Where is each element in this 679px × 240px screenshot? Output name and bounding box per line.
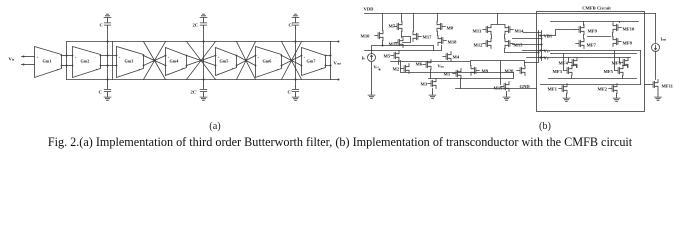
transistor M2 — [401, 64, 409, 74]
wire crossing X2 — [187, 42, 216, 80]
node dots output stubs — [338, 41, 340, 43]
transistor MF4 — [569, 58, 577, 68]
wire MF4 gate to bus — [568, 58, 570, 63]
svg-text:Gm3: Gm3 — [125, 59, 134, 64]
svg-text:C: C — [100, 23, 103, 28]
transistor M10 — [375, 31, 383, 41]
transistor M13 — [483, 25, 491, 35]
wire node1 vertical — [107, 28, 109, 87]
svg-text:2C': 2C' — [191, 90, 198, 95]
ground MF11 — [655, 95, 662, 101]
svg-text:Gm2: Gm2 — [81, 59, 90, 64]
svg-text:Gm1: Gm1 — [43, 59, 52, 64]
wire rail drop MF10 — [619, 22, 621, 23]
svg-text:MF2: MF2 — [598, 87, 608, 92]
svg-text:Vo+: Vo+ — [544, 49, 551, 54]
svg-text:M8: M8 — [447, 26, 454, 31]
wire Vo- to CMFB — [513, 44, 542, 46]
node column 1 with capacitors C — [99, 14, 111, 100]
wire VDD drop to M10 — [382, 14, 384, 31]
svg-text:Vin: Vin — [9, 57, 15, 62]
wire M19 source to ground — [506, 92, 508, 95]
wire VDD drop to M7 — [401, 14, 403, 22]
wire M7 to M11 — [402, 32, 411, 43]
wire bus mirror gates — [372, 46, 434, 51]
svg-text:+: + — [168, 56, 170, 60]
wire pair1 tail — [571, 76, 573, 79]
svg-text:M19: M19 — [494, 86, 504, 91]
transistor M9 — [471, 66, 479, 76]
svg-text:MF1: MF1 — [548, 87, 558, 92]
wire gate bus MF1/MF2 — [541, 84, 641, 86]
capacitor C top — [104, 20, 110, 28]
svg-text:Vi+: Vi+ — [374, 65, 380, 70]
svg-text:-: - — [181, 56, 182, 60]
svg-text:Ib: Ib — [362, 56, 366, 61]
transistor M7 — [394, 22, 402, 32]
svg-text:Iout: Iout — [661, 37, 667, 42]
node input dots — [23, 56, 25, 58]
svg-text:+: + — [119, 56, 121, 60]
wire Gm1 to box1 bottom rail — [62, 65, 73, 67]
wire M6 source to M3 drain — [430, 70, 432, 79]
svg-text:Vout: Vout — [334, 61, 342, 66]
wire output stubs — [331, 42, 339, 80]
wire GND bus into box — [456, 88, 537, 90]
svg-text:-: - — [320, 56, 321, 60]
ground bottom — [104, 95, 111, 101]
capacitor C' top — [292, 20, 298, 28]
ground bottom — [200, 95, 207, 101]
wire output node Vo vertical — [524, 31, 542, 61]
transistor M1 — [453, 69, 461, 79]
wire Vo+ to CMFB — [513, 38, 542, 40]
wire bus row4 — [429, 73, 514, 79]
svg-text:Gm7: Gm7 — [307, 59, 316, 64]
wire M5 source to M2 drain — [398, 61, 400, 65]
svg-text:C': C' — [288, 90, 293, 95]
wire M3 source to ground — [432, 89, 434, 93]
wire bus mid inner — [551, 53, 637, 55]
capacitor C bottom — [104, 87, 110, 95]
svg-text:M7: M7 — [389, 24, 396, 29]
transistor M11 — [395, 38, 403, 48]
wire Gm2 to Gm3 top rail — [101, 55, 117, 57]
wire crossing X4 — [282, 42, 302, 80]
svg-text:M3: M3 — [421, 82, 428, 87]
transistor MF2 — [609, 84, 617, 94]
svg-text:MF10: MF10 — [623, 27, 635, 32]
transistor M5 — [391, 51, 399, 61]
svg-text:M18: M18 — [448, 40, 458, 45]
ground M3 — [429, 93, 436, 99]
feedback box around Gm2 — [67, 42, 113, 80]
wire VDD drop to M13/M14 — [492, 14, 505, 25]
node column 3 with capacitors C' — [288, 14, 299, 100]
transistor M12 — [483, 39, 491, 49]
svg-text:Gm6: Gm6 — [263, 59, 272, 64]
svg-text:+: + — [75, 56, 77, 60]
wire Gm1 to box1 top rail — [62, 55, 73, 57]
wire M9-M20 drain bus — [471, 61, 525, 85]
node column 2 with capacitors 2C — [191, 14, 207, 100]
svg-text:MF6: MF6 — [612, 61, 622, 66]
op-amp Gm6 — [256, 47, 282, 78]
wire MF2 to ground — [616, 94, 618, 96]
svg-text:(b): (b) — [539, 121, 551, 132]
svg-text:-: - — [168, 72, 169, 76]
svg-text:M10: M10 — [361, 34, 371, 39]
wire box bottom rail full span — [67, 79, 331, 81]
wire CMFB to MF11 gate — [645, 84, 650, 86]
op-amp Gm3 — [117, 47, 144, 78]
svg-text:M15: M15 — [514, 43, 524, 48]
svg-text:-: - — [276, 56, 277, 60]
wire crossing X3 — [237, 42, 256, 80]
capacitor 2C' bottom — [200, 87, 206, 95]
svg-text:MF3: MF3 — [553, 69, 563, 74]
wire Gm2 to Gm3 bottom rail — [101, 65, 117, 67]
wire VDD to Iout source — [655, 14, 657, 43]
wire input top — [22, 56, 35, 58]
svg-text:(a): (a) — [209, 121, 220, 132]
transistor MF6 — [620, 58, 628, 68]
svg-text:MF5: MF5 — [604, 69, 614, 74]
svg-text:-: - — [231, 56, 232, 60]
transistor MF10 — [613, 23, 621, 33]
svg-text:+: + — [232, 67, 234, 71]
wire second output vertical — [525, 31, 539, 63]
transistor M14 — [505, 25, 513, 35]
ground bottom — [292, 95, 299, 101]
node dot Vo — [541, 38, 543, 40]
svg-text:M5: M5 — [384, 54, 391, 59]
wire M13 to M12 — [491, 35, 493, 39]
wire node3 vertical — [295, 28, 297, 87]
transistor MF8 — [613, 37, 621, 47]
wire MF6-MF5 link — [623, 66, 628, 68]
current source Ib — [368, 54, 376, 62]
wire node2 vertical — [203, 28, 205, 87]
wire M15 drain bus — [505, 49, 539, 53]
svg-text:-: - — [75, 74, 76, 78]
ground top (inverted) — [104, 14, 111, 20]
wire MF11 to ground — [657, 90, 659, 95]
op-amp Gm1 — [35, 47, 62, 78]
wire bus row2 — [391, 61, 470, 63]
wire crossing X1 — [144, 42, 166, 80]
svg-text:+: + — [96, 68, 98, 72]
svg-text:MF8: MF8 — [623, 41, 633, 46]
transistor M19 — [501, 82, 509, 92]
wire Iout to MF11 — [655, 52, 657, 80]
svg-text:M2: M2 — [393, 67, 400, 72]
ground Ib — [368, 93, 375, 99]
wire MF5 gate to bus — [614, 51, 616, 71]
svg-text:-: - — [119, 74, 120, 78]
transistor M3 — [428, 79, 436, 89]
wire pair2 tail — [622, 76, 624, 79]
wire MF9-MF10 gate link — [588, 36, 611, 38]
transistor M6 — [423, 60, 431, 70]
wire MF1 to ground — [566, 94, 568, 96]
svg-text:+: + — [182, 67, 184, 71]
svg-text:-: - — [37, 74, 38, 78]
op-amp Gm5 — [216, 48, 237, 76]
wire bus Vo- inner — [527, 57, 631, 59]
wire Ib to ground — [371, 62, 373, 93]
svg-text:M4: M4 — [453, 55, 460, 60]
svg-text:-: - — [138, 56, 139, 60]
svg-text:VB1: VB1 — [544, 34, 553, 39]
wire MF6 gate to bus — [619, 58, 621, 63]
svg-text:C': C' — [289, 23, 294, 28]
current source Iout — [652, 44, 660, 52]
ground M19 — [503, 95, 510, 101]
svg-text:M12: M12 — [474, 43, 484, 48]
ground top (inverted) — [292, 14, 299, 20]
wire MF4-MF3 link — [572, 66, 577, 68]
wire M8 to M18 — [437, 32, 439, 36]
svg-text:-: - — [304, 72, 305, 76]
svg-text:+: + — [304, 56, 306, 60]
svg-text:MF9: MF9 — [588, 29, 598, 34]
node junction dots on rails — [61, 55, 327, 67]
svg-text:+: + — [277, 68, 279, 72]
transistor M8 — [437, 22, 445, 32]
wire MF10-MF8 — [612, 33, 614, 37]
wire bus row3 — [401, 61, 514, 73]
svg-text:+: + — [139, 68, 141, 72]
wire bus Vo+ inner — [523, 50, 641, 52]
svg-text:Gm4: Gm4 — [170, 59, 180, 64]
svg-text:M17: M17 — [423, 35, 433, 40]
transistor MF1 — [559, 84, 567, 94]
transistor M18 — [438, 36, 446, 46]
transistor M17 — [413, 32, 421, 42]
svg-text:-: - — [258, 74, 259, 78]
wire Ib top — [365, 46, 442, 54]
svg-text:Vo-: Vo- — [544, 56, 550, 61]
node dots output — [330, 55, 332, 57]
wire Gm7 output to node Vout — [326, 42, 331, 80]
CMFB Circuit box — [537, 12, 645, 112]
wire VDD rail — [365, 13, 656, 15]
svg-text:M6: M6 — [416, 62, 423, 67]
svg-text:CMFB Circuit: CMFB Circuit — [582, 6, 611, 11]
node dots Gm1 output — [66, 55, 68, 57]
transistor MF5 — [615, 66, 623, 76]
transistor M20 — [517, 66, 525, 76]
wire M1 source to GND bus — [460, 79, 462, 89]
svg-text:M13: M13 — [473, 29, 483, 34]
svg-text:C: C — [99, 90, 102, 95]
node dot Vi+ — [379, 69, 381, 71]
node dots output verticals — [538, 52, 540, 54]
svg-text:M14: M14 — [515, 29, 525, 34]
wire rail drop MF9 — [583, 22, 585, 26]
transistor M15 — [505, 39, 513, 49]
wire M14 to M15 — [504, 35, 506, 39]
svg-text:Fig. 2.(a) Implementation of t: Fig. 2.(a) Implementation of third order… — [48, 135, 633, 149]
wire VDD drop to M17 — [413, 14, 415, 32]
wire VDD drop to M8 — [437, 14, 439, 22]
svg-text:+: + — [258, 56, 260, 60]
svg-text:-: - — [56, 56, 57, 60]
capacitor 2C top — [200, 20, 206, 28]
svg-text:-: - — [218, 72, 219, 76]
transistor MF11 — [650, 80, 658, 90]
svg-text:+: + — [321, 67, 323, 71]
transistor MF7 — [576, 39, 584, 49]
op-amp Gm7 — [302, 48, 326, 76]
svg-text:Gm5: Gm5 — [220, 59, 229, 64]
svg-text:MF11: MF11 — [662, 84, 674, 89]
svg-text:VDD: VDD — [364, 7, 375, 12]
capacitor C' bottom — [292, 87, 298, 95]
transistor MF9 — [576, 25, 584, 35]
wire MF3 gate to bus — [563, 54, 565, 71]
svg-text:+: + — [57, 68, 59, 72]
svg-text:+: + — [37, 56, 39, 60]
wire input bottom — [22, 64, 35, 66]
wire M10 drain to bus — [382, 41, 384, 46]
svg-text:2C: 2C — [193, 23, 199, 28]
wire tail rail — [549, 78, 637, 80]
svg-text:Vim: Vim — [438, 64, 445, 69]
ground MF1 — [563, 96, 570, 102]
wire MF9-MF7 — [583, 35, 585, 39]
svg-text:-: - — [95, 56, 96, 60]
svg-text:+: + — [218, 56, 220, 60]
svg-text:MF7: MF7 — [587, 43, 597, 48]
ground top (inverted) — [200, 14, 207, 20]
wire inner right vertical — [640, 51, 642, 85]
transistor MF3 — [564, 66, 572, 76]
wire box top rail full span — [67, 41, 331, 43]
wire CMFB inner top rail — [551, 21, 639, 23]
op-amp Gm2 — [73, 47, 101, 78]
op-amp Gm4 — [166, 48, 187, 76]
transistor M4 — [443, 52, 451, 62]
ground MF2 — [613, 96, 620, 102]
